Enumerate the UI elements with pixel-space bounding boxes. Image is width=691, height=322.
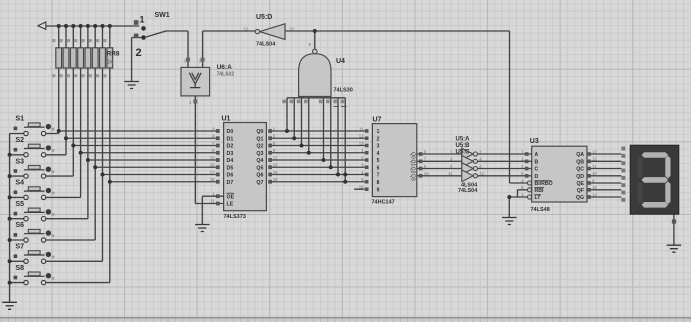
svg-text:12: 12 <box>273 155 278 160</box>
svg-text:U5:A: U5:A <box>456 137 471 143</box>
svg-text:D0: D0 <box>227 129 234 135</box>
svg-text:13: 13 <box>592 149 597 154</box>
svg-text:11: 11 <box>448 171 453 176</box>
svg-text:U3: U3 <box>530 138 539 145</box>
svg-text:74LS373: 74LS373 <box>224 214 246 220</box>
svg-text:U5:C: U5:C <box>456 150 471 156</box>
svg-text:S8: S8 <box>16 265 25 272</box>
svg-text:U4: U4 <box>336 58 345 65</box>
svg-text:2: 2 <box>377 136 380 142</box>
svg-text:9: 9 <box>377 187 380 193</box>
svg-text:74HC147: 74HC147 <box>372 200 395 206</box>
svg-text:13: 13 <box>210 155 215 160</box>
svg-text:Q4: Q4 <box>256 158 263 164</box>
svg-text:QE: QE <box>577 181 585 187</box>
svg-text:Q3: Q3 <box>410 174 416 181</box>
svg-text:QC: QC <box>576 167 584 173</box>
svg-text:74LS30: 74LS30 <box>334 88 353 94</box>
svg-text:D3: D3 <box>227 151 234 157</box>
svg-text:Q0: Q0 <box>410 152 416 159</box>
svg-text:19: 19 <box>273 177 278 182</box>
svg-text:OE: OE <box>227 194 235 200</box>
svg-text:Q7: Q7 <box>256 180 263 186</box>
svg-text:Q6: Q6 <box>256 173 263 179</box>
svg-text:18: 18 <box>210 177 215 182</box>
svg-text:15: 15 <box>592 185 597 190</box>
svg-text:U7: U7 <box>373 117 382 124</box>
svg-text:RR8: RR8 <box>107 51 120 58</box>
svg-text:74LS04: 74LS04 <box>256 42 276 48</box>
svg-text:LT: LT <box>535 195 542 201</box>
svg-text:D: D <box>535 174 539 180</box>
svg-text:Q2: Q2 <box>256 144 263 150</box>
svg-text:1: 1 <box>377 129 380 135</box>
svg-text:D4: D4 <box>227 158 234 164</box>
svg-text:11: 11 <box>592 164 597 169</box>
svg-text:S5: S5 <box>16 201 25 208</box>
svg-text:U6:A: U6:A <box>217 64 232 71</box>
svg-text:74LS32: 74LS32 <box>217 72 235 78</box>
svg-text:12: 12 <box>479 171 484 176</box>
svg-text:D6: D6 <box>227 173 234 179</box>
svg-text:SW1: SW1 <box>155 12 170 19</box>
svg-text:2: 2 <box>136 47 142 59</box>
svg-text:B: B <box>535 160 539 166</box>
svg-text:S6: S6 <box>16 222 25 229</box>
svg-text:D5: D5 <box>227 165 234 171</box>
svg-text:S1: S1 <box>16 116 25 123</box>
svg-text:QD: QD <box>576 174 584 180</box>
svg-text:S3: S3 <box>16 158 25 165</box>
svg-text:QF: QF <box>577 188 584 194</box>
svg-text:U5:B: U5:B <box>456 143 471 149</box>
svg-text:5: 5 <box>377 158 380 164</box>
svg-text:U5:D: U5:D <box>256 14 272 21</box>
svg-text:A: A <box>535 152 539 158</box>
svg-text:S7: S7 <box>16 244 25 251</box>
svg-text:12: 12 <box>592 157 597 162</box>
svg-text:74LS48: 74LS48 <box>531 207 550 213</box>
svg-text:11: 11 <box>210 199 215 204</box>
svg-text:14: 14 <box>210 163 215 168</box>
svg-text:S2: S2 <box>16 137 25 144</box>
svg-text:RBI: RBI <box>535 188 544 194</box>
svg-text:QB: QB <box>576 160 584 166</box>
svg-text:Q5: Q5 <box>256 165 263 171</box>
svg-text:14: 14 <box>592 192 597 197</box>
svg-text:7: 7 <box>377 173 380 179</box>
svg-text:Q1: Q1 <box>410 159 416 166</box>
svg-text:1: 1 <box>140 15 145 25</box>
svg-text:11: 11 <box>359 126 364 131</box>
svg-text:D2: D2 <box>227 144 234 150</box>
svg-text:3: 3 <box>377 144 380 150</box>
svg-text:BI/RBO: BI/RBO <box>535 181 553 187</box>
svg-text:D7: D7 <box>227 180 234 186</box>
svg-text:QG: QG <box>576 195 584 201</box>
svg-text:Q2: Q2 <box>410 167 416 174</box>
svg-text:10: 10 <box>592 171 597 176</box>
svg-text:D1: D1 <box>227 136 234 142</box>
svg-text:Q3: Q3 <box>256 151 263 157</box>
svg-text:8: 8 <box>377 180 380 186</box>
svg-text:Q0: Q0 <box>256 129 263 135</box>
svg-text:C: C <box>535 167 539 173</box>
svg-text:17: 17 <box>210 170 215 175</box>
svg-text:14: 14 <box>424 171 429 176</box>
svg-text:Q1: Q1 <box>256 136 263 142</box>
svg-text:13: 13 <box>359 141 364 146</box>
svg-text:QA: QA <box>576 152 584 158</box>
svg-text:1k: 1k <box>107 60 114 66</box>
svg-text:15: 15 <box>273 163 278 168</box>
svg-text:4: 4 <box>377 151 380 157</box>
svg-text:U1: U1 <box>222 116 231 123</box>
svg-text:LE: LE <box>227 202 234 208</box>
svg-text:12: 12 <box>244 27 249 32</box>
svg-text:74LS04: 74LS04 <box>458 188 478 194</box>
svg-text:6: 6 <box>377 165 380 171</box>
svg-text:16: 16 <box>273 170 278 175</box>
svg-text:10: 10 <box>359 185 364 190</box>
svg-text:12: 12 <box>359 134 364 139</box>
svg-text:S4: S4 <box>16 180 25 187</box>
svg-text:13: 13 <box>289 27 294 32</box>
